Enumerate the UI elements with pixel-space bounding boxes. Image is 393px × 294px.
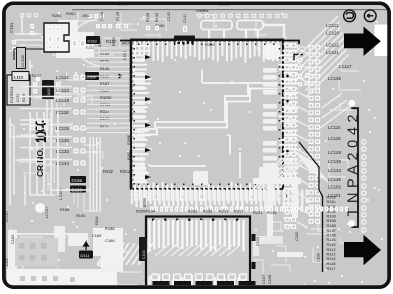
edge component A	[118, 5, 127, 10]
svg-text:R225: R225	[267, 210, 277, 215]
wire bundle down-left of IC	[90, 137, 100, 212]
svg-text:C161: C161	[9, 22, 14, 33]
white band bottom-left	[7, 269, 117, 288]
gray block with pads	[15, 238, 58, 266]
pad grid mid-left	[30, 119, 49, 131]
svg-text:LC117: LC117	[339, 64, 352, 69]
svg-text:C165: C165	[92, 233, 101, 238]
white channel mid	[54, 226, 65, 252]
svg-text:R259: R259	[22, 94, 26, 102]
svg-text:CR NO.: CR NO.	[35, 148, 45, 177]
svg-text:R236: R236	[203, 209, 212, 214]
svg-text:D162: D162	[47, 88, 51, 97]
IC inner pad column right	[263, 46, 277, 182]
svg-text:R117: R117	[327, 266, 336, 271]
svg-text:R186: R186	[105, 226, 115, 231]
pad cluster top-left	[12, 13, 106, 51]
arrow marker R131	[114, 74, 122, 78]
wire wide above IC right	[263, 25, 284, 38]
svg-text:R140: R140	[155, 13, 159, 22]
inductor LC108 box	[17, 48, 26, 69]
round pad column right of bracket	[361, 139, 367, 233]
white plane bottom-left 2	[93, 228, 123, 272]
svg-text:R184: R184	[95, 216, 99, 225]
diag bundle below strips	[294, 150, 328, 182]
wire fan top-right	[296, 16, 349, 97]
connector outline	[146, 217, 250, 286]
svg-text:R193: R193	[76, 213, 85, 218]
screw hole A	[344, 10, 356, 22]
wire traces mid-left	[10, 100, 90, 205]
svg-text:LC123: LC123	[56, 88, 69, 93]
connector bottom pads	[153, 281, 256, 286]
IC pin fingers bottom	[135, 182, 278, 200]
bracket dot top	[348, 100, 355, 107]
svg-text:LC135: LC135	[328, 177, 341, 182]
svg-text:JW2: JW2	[82, 14, 90, 18]
IC left edge heavy segment	[130, 40, 133, 190]
IC-to-strip fingers	[285, 44, 298, 225]
pads in gray block	[19, 243, 47, 261]
connector bottom white pads	[151, 274, 247, 281]
connector inner fingers bottom	[150, 274, 244, 294]
white blob small	[68, 233, 88, 246]
svg-text:LC114: LC114	[56, 75, 69, 80]
traces left LC column	[20, 87, 72, 160]
svg-text:R205: R205	[143, 198, 147, 207]
pad pairs left LC column	[74, 75, 86, 166]
svg-text:C108: C108	[267, 275, 272, 284]
pads top-right fan	[298, 58, 309, 86]
diag traces between strips	[297, 48, 308, 228]
pad cluster right column	[98, 262, 118, 266]
pin dots strip	[286, 75, 289, 198]
svg-text:R261: R261	[52, 13, 62, 18]
diode D156 body	[70, 186, 86, 193]
connector body fill	[146, 216, 250, 285]
direction arrow top	[344, 27, 381, 57]
svg-text:C133: C133	[100, 12, 104, 21]
svg-text:R129: R129	[116, 12, 120, 21]
wire bundle left of IC	[87, 48, 130, 133]
pads top middle	[108, 24, 187, 32]
svg-text:L108: L108	[316, 253, 321, 262]
pads inside JW2	[48, 27, 60, 49]
IC pin fingers left	[133, 46, 151, 182]
wire to JW2	[14, 49, 44, 60]
board top edge line	[72, 9, 388, 11]
svg-text:D111: D111	[81, 253, 91, 258]
pad band below IC row2	[132, 199, 307, 210]
svg-text:LC115: LC115	[328, 125, 341, 130]
IC inner pad column left	[134, 58, 145, 176]
wire R127 to D151	[120, 41, 299, 45]
svg-text:R153: R153	[112, 37, 116, 46]
diode D155 body	[70, 176, 86, 183]
direction arrow bottom	[344, 235, 381, 265]
svg-text:LC111: LC111	[326, 23, 339, 28]
bracket dot bottom	[348, 220, 355, 227]
svg-text:R151: R151	[100, 59, 109, 64]
svg-text:C166: C166	[105, 238, 115, 243]
diode D151 body	[174, 36, 195, 45]
connector inner fingers top	[150, 221, 244, 251]
IC corner blob BR	[259, 167, 279, 184]
diode D164 body	[85, 72, 99, 80]
pad cluster C187 area	[208, 228, 232, 250]
svg-text:C102: C102	[294, 232, 299, 241]
white plane bottom right	[253, 236, 283, 256]
pad row above connector	[150, 207, 348, 212]
svg-text:TNPA2042: TNPA2042	[346, 110, 362, 217]
svg-text:R188: R188	[60, 207, 69, 212]
svg-text:LC138: LC138	[328, 159, 341, 164]
svg-text:R209/R194: R209/R194	[136, 210, 155, 214]
diode D162 body	[42, 80, 54, 99]
via ring	[35, 76, 40, 81]
IC pin fingers right	[279, 46, 297, 182]
svg-text:LC143: LC143	[328, 168, 341, 173]
connector outline white A	[201, 21, 232, 30]
connector diag traces	[155, 245, 240, 256]
connector top pin dots	[152, 219, 238, 221]
svg-text:LC147: LC147	[45, 207, 49, 218]
pads beside D162	[33, 82, 60, 93]
hatched ribbon bottom-left	[97, 243, 153, 265]
svg-text:D155: D155	[72, 178, 83, 183]
svg-text:R184: R184	[100, 51, 110, 56]
svg-text:D163: D163	[88, 40, 97, 44]
arrow marker D111	[84, 242, 89, 250]
pad row top band	[197, 14, 287, 19]
IC pin-1 dots	[134, 44, 281, 186]
svg-text:R200: R200	[98, 39, 102, 47]
svg-text:LC120: LC120	[326, 31, 339, 36]
svg-text:R221: R221	[253, 210, 263, 215]
connector outline white B	[237, 21, 263, 30]
diag bundle IC corner	[252, 159, 306, 190]
screw hole B	[364, 10, 376, 22]
svg-text:C171: C171	[16, 94, 20, 102]
pads on white band	[20, 276, 75, 282]
component block R147/C171/R259 outline	[7, 75, 30, 105]
svg-text:LC121: LC121	[326, 50, 339, 55]
svg-text:R214: R214	[219, 209, 229, 214]
board notch right	[375, 25, 388, 57]
white plane region upper-left	[56, 20, 94, 58]
IC X3801 outline	[131, 40, 283, 190]
diode D111 body	[79, 251, 93, 259]
component JW2 outline	[44, 23, 69, 52]
svg-text:R202: R202	[120, 169, 131, 174]
svg-text:R262: R262	[66, 11, 76, 16]
white circle LC147	[35, 203, 45, 213]
component C163 body top coat	[139, 237, 147, 261]
bracket corner pad strip	[294, 55, 303, 61]
svg-text:C183: C183	[10, 235, 15, 244]
capacitor C103 pads	[252, 234, 256, 269]
svg-text:LC108: LC108	[20, 54, 25, 67]
svg-text:C141: C141	[183, 14, 187, 23]
edge component B	[218, 5, 230, 10]
component D163 body	[86, 36, 100, 44]
IC corner blob TR	[265, 44, 280, 60]
svg-text:LC148: LC148	[328, 150, 341, 155]
wires to bracket top	[320, 93, 350, 128]
pad band below IC row1	[132, 191, 307, 202]
white channel left	[8, 230, 17, 272]
svg-text:C107: C107	[261, 275, 266, 284]
inductor L113 box	[12, 72, 29, 81]
svg-text:R232: R232	[103, 169, 114, 174]
svg-text:LC128: LC128	[56, 98, 69, 103]
ground plane splits inside IC	[137, 69, 278, 178]
board top strip	[72, 5, 388, 9]
svg-text:LC112: LC112	[326, 43, 339, 48]
svg-text:R233: R233	[188, 209, 197, 214]
svg-text:C103: C103	[255, 237, 260, 246]
stems from connectors	[209, 30, 258, 39]
svg-text:R217: R217	[234, 209, 243, 214]
svg-text:R146: R146	[146, 13, 150, 22]
wire bundle behind CR NO	[30, 112, 58, 195]
pad strip right inner	[285, 43, 297, 229]
svg-text:LC119: LC119	[328, 136, 341, 141]
pad strip right outer	[309, 45, 321, 224]
IC corner blob BL	[134, 166, 146, 183]
svg-text:C142: C142	[167, 12, 171, 21]
IC pin arrows left	[145, 55, 151, 179]
IC pin fingers top	[135, 42, 278, 62]
bracket TNPA2042	[351, 108, 358, 227]
svg-text:C163: C163	[142, 250, 146, 259]
svg-text:LC136: LC136	[328, 76, 341, 81]
wire bundle top-left	[15, 14, 100, 74]
wire traces bottom right	[253, 178, 303, 257]
component C163 body	[139, 237, 147, 261]
wire bracket R-column	[299, 142, 323, 272]
IC bottom blob mid	[193, 171, 208, 185]
svg-text:L113: L113	[14, 75, 24, 80]
svg-text:R199: R199	[205, 42, 215, 47]
svg-text:R147R234: R147R234	[10, 87, 14, 103]
svg-text:LC102: LC102	[328, 185, 341, 190]
white trace above block	[15, 233, 88, 235]
